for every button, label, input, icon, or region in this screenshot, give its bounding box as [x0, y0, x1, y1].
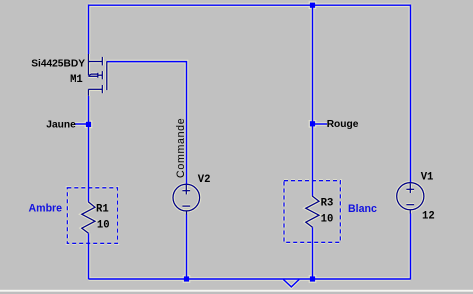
svg-text:V2: V2 — [198, 174, 211, 186]
svg-text:Commande: Commande — [175, 118, 187, 178]
svg-text:Jaune: Jaune — [46, 119, 76, 130]
svg-text:12: 12 — [422, 211, 435, 223]
svg-text:R1: R1 — [96, 203, 109, 215]
svg-text:10: 10 — [97, 219, 110, 231]
svg-text:Rouge: Rouge — [327, 119, 359, 130]
svg-text:10: 10 — [321, 213, 334, 225]
svg-text:R3: R3 — [321, 198, 334, 210]
svg-text:Si4425BDY: Si4425BDY — [31, 59, 85, 70]
svg-text:V1: V1 — [421, 172, 434, 184]
svg-text:M1: M1 — [70, 74, 83, 86]
svg-text:Blanc: Blanc — [348, 203, 377, 215]
svg-text:Ambre: Ambre — [29, 203, 63, 215]
